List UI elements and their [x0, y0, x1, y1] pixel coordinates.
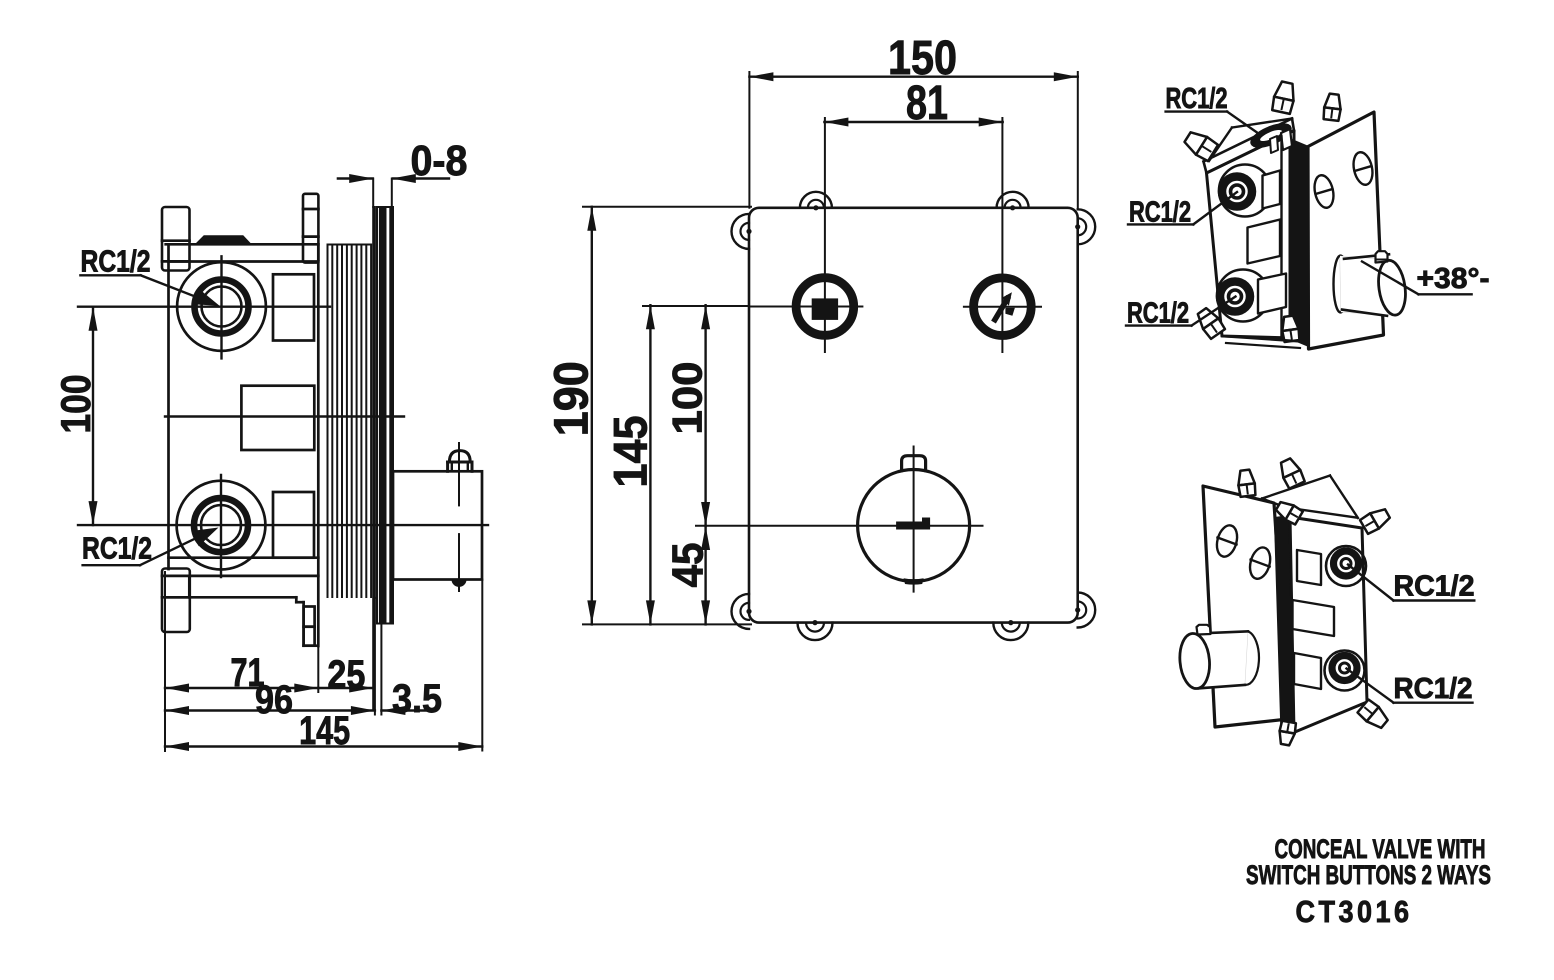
svg-text:RC1/2: RC1/2	[81, 244, 151, 279]
iso-top: body front face	[1207, 131, 1295, 339]
left view: top small tab (right of centre)	[303, 194, 318, 263]
front view: thermostat knob circle	[858, 470, 970, 582]
iso-bot: thermostat knob cylinder	[1195, 631, 1248, 688]
iso-bot: body top face rear edge	[1262, 476, 1330, 499]
front view: mounting ear bottom-left side	[732, 594, 750, 629]
svg-text:0-8: 0-8	[411, 137, 468, 185]
front view: mounting ear top edge right	[997, 192, 1029, 208]
svg-text:25: 25	[327, 653, 365, 697]
left view: centreline middle	[165, 415, 404, 417]
iso-bot: plate screw slot 2	[1247, 545, 1274, 581]
front view: knob top stem	[902, 456, 926, 471]
iso-bot: plate left edge line	[1203, 486, 1210, 626]
front view: mounting ear bottom edge left	[798, 623, 833, 641]
front view: button hole 2 ring	[974, 278, 1032, 336]
iso-top: lug top-left corner	[1185, 132, 1208, 154]
dim 81 dimension line	[824, 121, 1002, 123]
dim 145 dimension line	[165, 745, 482, 747]
left view: top mounting tab (upper-left)	[162, 207, 190, 271]
iso-bot: knob top nub	[1197, 625, 1211, 635]
svg-text:81: 81	[906, 77, 948, 130]
svg-text:145: 145	[604, 416, 657, 488]
iso-bot: lug top right corner	[1370, 509, 1390, 528]
iso-bot: face window 1	[1297, 550, 1321, 585]
dim 96/3.5 dimension line	[165, 709, 375, 711]
left view: bottom-right step and tab	[295, 597, 298, 602]
iso-bot: face window 3	[1294, 653, 1321, 689]
left view: bottom mounting tab (lower-left)	[162, 569, 190, 633]
iso-top: body top face rear edges	[1232, 119, 1292, 128]
left view: centreline upper port	[78, 306, 330, 308]
front view: button hole 1 ring	[796, 278, 854, 336]
front view: mounting ear top-right side	[1078, 209, 1096, 244]
front view: mounting ear bottom edge right	[993, 623, 1028, 641]
front view: mounting ear top edge left	[800, 192, 832, 208]
dim 100 (left view) dimension line	[92, 307, 94, 525]
front view: knob bottom tick	[904, 578, 924, 584]
iso-bot: lug top middle lower	[1276, 502, 1294, 520]
svg-text:RC1/2: RC1/2	[1394, 571, 1475, 603]
iso-top: face window 1	[1263, 171, 1281, 209]
left view: wall plate (side, dark)	[377, 207, 393, 624]
iso-bot: rear gap (black band)	[1275, 516, 1294, 738]
iso-bot: plate screw slot 1	[1214, 523, 1241, 559]
svg-text:100: 100	[664, 362, 711, 435]
front view: hole 2 crosshair	[1001, 118, 1003, 352]
svg-text:RC1/2: RC1/2	[1166, 83, 1228, 115]
leader RC1/2 lower (left view)	[83, 564, 140, 566]
iso-top: thermostat knob cylinder	[1334, 256, 1348, 313]
iso-top: plate screw slot 1	[1312, 173, 1336, 209]
svg-text:100: 100	[52, 375, 99, 434]
iso-bot: lug bottom left	[1280, 731, 1295, 746]
left view: lower port crosshair	[220, 475, 222, 577]
dim 190/145 horizontal extension lines	[583, 206, 751, 208]
iso-top: rim end posts	[1281, 129, 1292, 150]
dim 71/25 dimension line	[165, 687, 318, 689]
left view: upper port crosshair	[220, 256, 222, 358]
iso-bot: body top rim	[1286, 508, 1356, 518]
left view: outlet screw centreline	[458, 443, 460, 505]
left view: upper port RC1/2 circles	[177, 262, 266, 351]
front view: hole 2 diverter mark	[995, 299, 1008, 320]
iso-bot: lower port (RC1/2)	[1325, 651, 1365, 691]
iso-bot: wall plate (perspective)	[1203, 486, 1288, 727]
svg-text:SWITCH BUTTONS 2 WAYS: SWITCH BUTTONS 2 WAYS	[1246, 860, 1491, 890]
front view: wall plate outline	[749, 208, 1078, 623]
dim 100 (vertical) dimension line	[704, 305, 706, 526]
dim 190 dimension line	[591, 207, 593, 625]
dim 45 dimension line	[704, 526, 706, 624]
left view: lower port RC1/2 circles	[177, 481, 266, 570]
front view: knob crosshair	[913, 447, 915, 592]
iso-top: face window 2	[1248, 220, 1281, 264]
front view: mounting ear top-left side	[732, 214, 750, 249]
dim 0-8 dimension line	[338, 177, 373, 179]
dim 150 extension lines	[748, 72, 750, 208]
iso-top: face window 3	[1258, 274, 1286, 314]
left view: outlet screw head	[449, 451, 470, 462]
iso-bot: face window 2	[1293, 600, 1335, 636]
left view: centreline lower port	[78, 524, 488, 526]
iso-top: lug top middle	[1274, 82, 1293, 101]
iso-top: front face inner edge	[1280, 137, 1282, 339]
iso-top: lug bottom middle	[1282, 316, 1298, 331]
iso-bot: lug top middle upper	[1281, 458, 1300, 478]
svg-text:145: 145	[299, 709, 350, 753]
left view: outlet block	[393, 471, 482, 579]
left view: upper port boss rectangle	[273, 274, 314, 340]
iso-top: wall plate (perspective)	[1308, 112, 1384, 349]
iso-top: plate screw slot 2	[1351, 150, 1375, 186]
iso-bot: body front-right face	[1290, 517, 1367, 732]
svg-text:RC1/2: RC1/2	[82, 531, 152, 566]
dim 145 (vertical) dimension line	[649, 305, 651, 624]
extension lines bottom (left view)	[164, 572, 166, 751]
iso-top: body top rim	[1204, 119, 1293, 162]
left view: threaded collar	[327, 245, 329, 598]
iso-top: lug bottom-left	[1198, 308, 1219, 329]
svg-text:190: 190	[546, 361, 599, 436]
iso-top: knob top nub	[1376, 251, 1388, 262]
iso-bot: lug top behind plate	[1238, 470, 1254, 486]
iso-top: lug top right	[1324, 94, 1340, 110]
svg-text:RC1/2: RC1/2	[1394, 673, 1473, 705]
leader RC1/2 upper (left view)	[80, 274, 140, 276]
iso-top: upper port (RC1/2)	[1219, 165, 1271, 217]
svg-text:96: 96	[255, 678, 293, 722]
svg-text:3.5: 3.5	[392, 677, 442, 721]
front view: mounting ear bottom-right side	[1078, 593, 1096, 628]
left view: lower port boss rectangle	[273, 492, 314, 558]
iso-bot: upper port (RC1/2)	[1326, 546, 1366, 586]
iso-top: lower port (RC1/2)	[1217, 270, 1269, 322]
front view: knob centre dash	[896, 518, 930, 530]
svg-text:+38°-: +38°-	[1417, 263, 1490, 295]
left view: middle window rectangle	[241, 386, 314, 450]
iso-top: body rear gap (black band)	[1290, 139, 1308, 346]
left view: collar boundary double line	[372, 207, 374, 711]
svg-text:CT3016: CT3016	[1296, 894, 1413, 929]
dim 150 dimension line	[749, 75, 1077, 77]
iso-top: body bottom edge	[1222, 336, 1302, 342]
iso-bot: lug bottom right	[1367, 707, 1388, 728]
svg-text:45: 45	[664, 543, 713, 588]
front view: button hole 1 square insert	[812, 298, 838, 320]
front view: hole 1 crosshair	[824, 118, 826, 352]
iso-top: top face seal ring (dark ellipse)	[1248, 120, 1293, 152]
left view: black seal bar on top	[197, 236, 250, 243]
left view: valve body outline	[167, 244, 170, 569]
